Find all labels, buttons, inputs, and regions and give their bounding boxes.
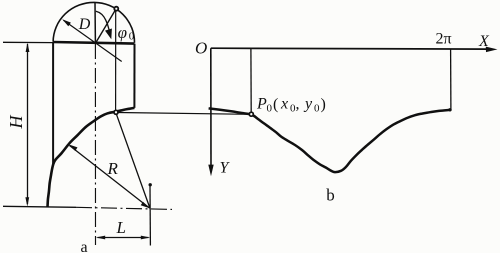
X axis xyxy=(211,47,488,50)
generatrix line at phi0 xyxy=(115,11,117,112)
horizontal centre line of big pipe (left solid part = H extension) xyxy=(3,206,76,207)
svg-text:X: X xyxy=(478,33,490,50)
svg-text:a: a xyxy=(81,239,88,253)
2pi ordinate line xyxy=(450,49,452,110)
svg-text:R: R xyxy=(107,159,119,178)
P0 node on development curve xyxy=(249,112,253,116)
D arrowhead xyxy=(62,19,71,26)
H dimension line xyxy=(27,44,29,204)
svg-text:O: O xyxy=(195,39,207,58)
phi0 radius line to point on circle xyxy=(96,10,116,43)
svg-text:0: 0 xyxy=(129,31,135,43)
R radius line xyxy=(70,146,150,209)
Y axis arrowhead xyxy=(208,165,213,177)
cylinder left wall xyxy=(52,42,54,165)
svg-text:): ) xyxy=(321,96,326,113)
vertical line from dot through centre (L extension) xyxy=(149,186,151,245)
small circle marker on circle xyxy=(114,7,118,11)
phi0 angle arc (hand-drawn spiral with arrow) xyxy=(96,11,109,29)
X axis arrowhead xyxy=(486,47,498,53)
svg-text:D: D xyxy=(78,16,91,33)
svg-text:x: x xyxy=(280,96,288,113)
cylinder right wall xyxy=(133,44,135,108)
x0 ordinate line xyxy=(250,48,252,112)
horizontal centre line dash-dot through R centre xyxy=(76,207,172,209)
H bottom arrowhead xyxy=(25,197,29,206)
L dimension line xyxy=(98,237,149,239)
svg-text:H: H xyxy=(6,115,26,130)
L right arrowhead xyxy=(141,236,150,240)
svg-text:b: b xyxy=(326,186,335,205)
label P0(x0, y0) xyxy=(256,96,326,115)
R arrowhead at arc xyxy=(68,144,77,151)
connector line P0 to development P0 xyxy=(118,113,250,115)
svg-text:,: , xyxy=(296,96,300,113)
cylinder top edge (thick) xyxy=(53,42,134,44)
vertical diameter xyxy=(94,3,96,43)
development curve (thick) xyxy=(209,108,451,172)
big pipe arc R (cut curve, thick) xyxy=(48,108,135,207)
svg-text:0: 0 xyxy=(267,103,273,115)
small dot above centre xyxy=(149,183,152,186)
svg-text:L: L xyxy=(116,218,126,237)
svg-text:φ: φ xyxy=(118,23,127,42)
H top arrowhead xyxy=(26,43,30,52)
Y axis xyxy=(210,48,212,168)
L left arrowhead xyxy=(96,236,105,240)
line P0 to centre of R xyxy=(116,114,150,208)
svg-text:P: P xyxy=(256,96,267,113)
P0 node (front view) xyxy=(114,110,118,114)
svg-text:2π: 2π xyxy=(436,31,452,48)
svg-text:0: 0 xyxy=(314,103,320,115)
R arrowhead at centre xyxy=(141,202,150,209)
D diameter line (through centre, extends below edge) xyxy=(64,20,122,61)
node at 2pi end of curve xyxy=(448,108,451,111)
phi0 arrowhead xyxy=(105,29,112,40)
svg-text:y: y xyxy=(303,96,313,113)
cylinder center line (dash-dot) xyxy=(94,44,96,245)
svg-text:(: ( xyxy=(273,96,278,113)
H top extension line xyxy=(3,41,53,43)
semicircle D (top view of pipe) xyxy=(53,2,134,42)
